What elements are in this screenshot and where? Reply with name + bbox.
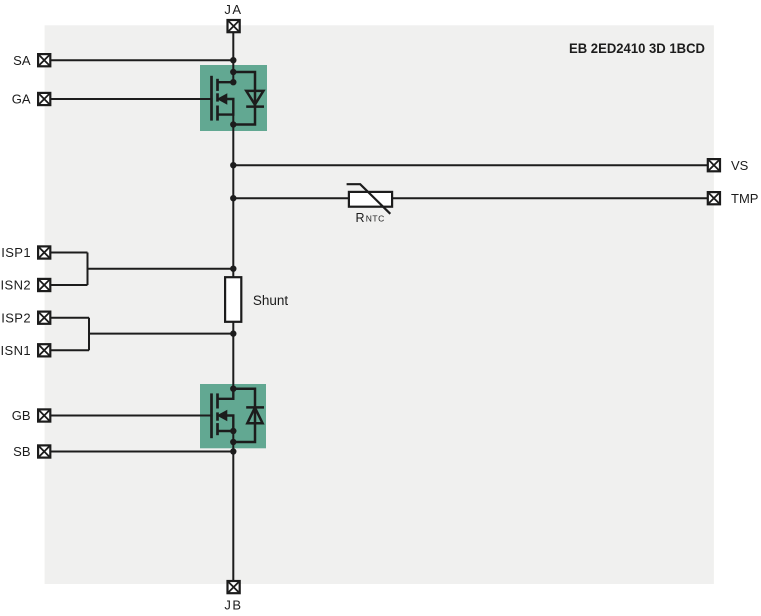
wire sense pair2 to shunt bottom <box>89 333 233 335</box>
svg-text:ISP1: ISP1 <box>1 245 31 260</box>
terminal TMP <box>708 192 720 204</box>
terminal ISP1 <box>38 246 50 258</box>
wire sense pair1 to shunt top <box>88 268 234 270</box>
svg-text:VS: VS <box>731 158 749 173</box>
junction node SB-trunk <box>230 448 236 454</box>
transistor Q_A n-channel MOSFET <box>212 76 234 121</box>
junction node shunt bottom sense <box>230 330 236 336</box>
highlight box Q_A <box>200 65 267 131</box>
wire SB <box>50 451 233 453</box>
wire ISN2 <box>50 284 87 286</box>
junction node SA-trunk <box>230 57 236 63</box>
terminal ISN2 <box>38 279 50 291</box>
terminal JB <box>228 581 240 593</box>
body diode D_A <box>233 72 264 125</box>
wire shunt bottom to Q_B drain <box>232 322 234 389</box>
junction node D_B cathode return <box>230 439 236 445</box>
svg-text:ISN1: ISN1 <box>0 343 31 358</box>
wire ISN1 <box>50 349 89 351</box>
wire SA <box>50 59 233 61</box>
svg-text:R: R <box>356 211 365 225</box>
schematic sheet background <box>45 25 714 584</box>
highlight box Q_B <box>200 384 266 448</box>
svg-text:GA: GA <box>12 92 31 107</box>
svg-text:ISP2: ISP2 <box>1 310 31 325</box>
junction node Q_A source <box>230 121 236 127</box>
svg-text:SA: SA <box>13 53 31 68</box>
wire GB gate lead <box>50 415 212 417</box>
junction node Q_A drain <box>230 79 236 85</box>
svg-text:JA: JA <box>224 2 242 17</box>
wire GA gate lead <box>50 98 212 100</box>
svg-text:JB: JB <box>224 598 242 613</box>
terminal ISN1 <box>38 344 50 356</box>
wire TMP right <box>392 197 708 199</box>
wire ISP2-ISN1 vertical <box>88 318 90 351</box>
svg-text:NTC: NTC <box>366 214 385 224</box>
terminal GB <box>38 409 50 421</box>
resistor R_NTC thermistor <box>347 184 393 214</box>
body diode D_B <box>233 389 264 442</box>
svg-text:EB 2ED2410 3D 1BCD: EB 2ED2410 3D 1BCD <box>569 40 705 56</box>
junction node Q_B drain <box>230 386 236 392</box>
terminal SA <box>38 54 50 66</box>
wire TMP left <box>233 197 349 199</box>
wire Q_B source to JB <box>232 431 234 581</box>
svg-text:Shunt: Shunt <box>253 293 289 308</box>
junction node VS tap <box>230 162 236 168</box>
terminal VS <box>708 159 720 171</box>
wire ISP2 <box>50 317 89 319</box>
junction node TMP tap <box>230 195 236 201</box>
label R_NTC <box>356 211 385 225</box>
resistor Shunt <box>225 277 241 322</box>
wire JA to node SA <box>232 32 234 82</box>
terminal SB <box>38 445 50 457</box>
wire trunk Q_A source to shunt <box>232 115 234 278</box>
terminal GA <box>38 93 50 105</box>
junction node shunt top sense <box>230 266 236 272</box>
transistor Q_B n-channel MOSFET <box>212 389 234 439</box>
svg-text:SB: SB <box>13 444 30 459</box>
junction node D_A anode tap <box>230 69 236 75</box>
svg-text:TMP: TMP <box>731 191 758 206</box>
junction node Q_B source <box>230 428 236 434</box>
terminal JA <box>228 20 240 32</box>
svg-text:GB: GB <box>12 408 31 423</box>
wire ISP1 <box>50 252 87 254</box>
svg-text:ISN2: ISN2 <box>0 278 31 293</box>
wire VS <box>233 164 708 166</box>
wire ISP1-ISN2 vertical <box>87 253 89 286</box>
terminal ISP2 <box>38 312 50 324</box>
